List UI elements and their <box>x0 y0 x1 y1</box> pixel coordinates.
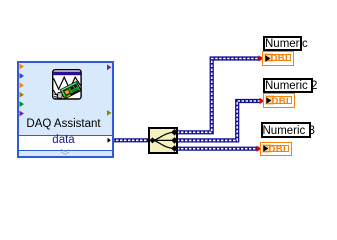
output arrow row1 purple <box>107 64 112 70</box>
DAQ Assistant icon <box>52 69 82 100</box>
input arrow row3 orange <box>20 82 25 88</box>
data output black arrow <box>108 138 111 143</box>
wire W1: split top output up to Numeric DBL <box>177 59 260 133</box>
DAQ Assistant express VI body <box>17 61 114 158</box>
waveform zigzag <box>54 77 81 89</box>
data row separators and white data row <box>19 135 112 152</box>
DAQ Assistant caption <box>17 119 110 131</box>
input arrow row2 blue <box>20 73 25 79</box>
plug body <box>57 92 62 98</box>
input arrow row4 olive <box>20 92 25 98</box>
plug prongs <box>54 94 58 97</box>
coercion arrow red at DBL1 <box>259 55 264 61</box>
data output name <box>17 135 110 147</box>
wire W3: split bottom output to Numeric 3 DBL <box>177 147 258 151</box>
DBL terminal Numeric <box>262 51 294 66</box>
DBL terminal Numeric 2 <box>263 93 295 108</box>
indicator label Numeric 2 <box>263 78 313 94</box>
expand chevron <box>61 149 69 154</box>
indicator label Numeric 3 <box>261 122 311 138</box>
DAQ card <box>60 81 81 99</box>
indicator label Numeric <box>263 36 302 51</box>
split signals fan-out glyph <box>148 127 179 154</box>
wire W2: split middle output up to Numeric 2 DBL <box>177 101 261 140</box>
input arrow row1 orange <box>20 64 25 70</box>
split signals node <box>148 127 179 154</box>
wire W0 segment <box>112 138 150 142</box>
output arrow row6 olive <box>107 110 112 116</box>
icon title bar <box>54 71 81 75</box>
wire W0: DAQ Assistant data -> split node, dashed dynamic-data wire <box>0 0 337 176</box>
input arrow row6 purple <box>20 111 25 117</box>
coercion arrow red at DBL3 <box>257 146 262 152</box>
coercion arrow red at DBL2 <box>260 98 265 104</box>
express VI terminal arrows <box>17 61 114 158</box>
input arrow row5 green <box>20 101 25 107</box>
DBL terminal Numeric 3 <box>260 142 292 157</box>
plug cable <box>54 90 59 95</box>
